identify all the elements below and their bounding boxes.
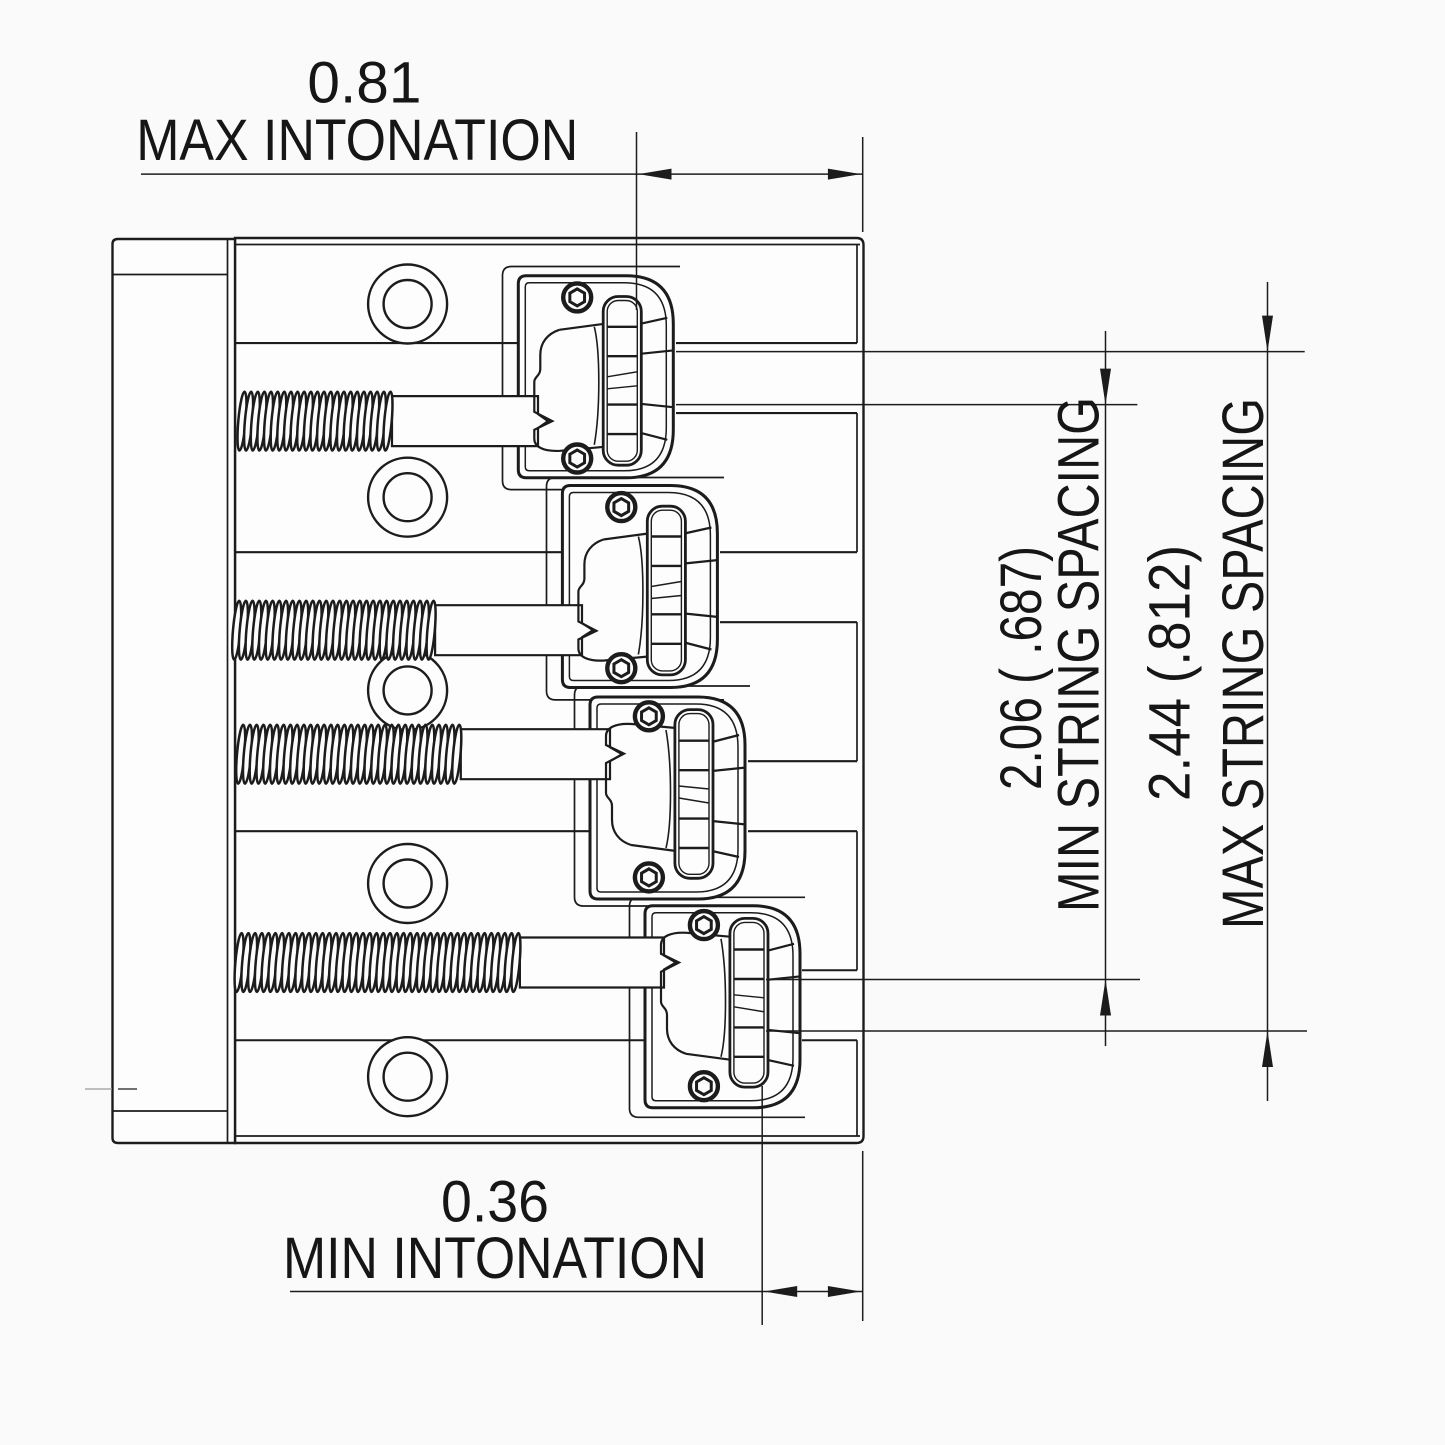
mounting hole 2 bore bbox=[384, 473, 432, 521]
arrowhead top of 2.06 dimension bbox=[1100, 369, 1111, 405]
bridge base plate outline bbox=[235, 238, 864, 1143]
saddle 4 (string 4, mirrored) body bbox=[645, 906, 801, 1108]
string 1 max-spacing line bbox=[676, 351, 1305, 353]
string 4 max-spacing line bbox=[766, 1030, 1307, 1032]
base plate inner right edge line segments bbox=[856, 245, 858, 1137]
saddle 3 (string 3, mirrored) moulding and set screws bbox=[606, 702, 676, 891]
mounting hole 5 bore bbox=[384, 1053, 432, 1101]
saddle 1 (string 1) body bbox=[518, 276, 674, 478]
arrowhead bottom of 2.06 dimension bbox=[1100, 980, 1111, 1016]
dimension line 2.06 MIN STRING SPACING bbox=[1105, 331, 1107, 1046]
svg-text:0.81: 0.81 bbox=[307, 51, 421, 116]
arrowhead right of 0.36 dimension bbox=[828, 1286, 861, 1297]
string channel edges left of saddles bbox=[235, 343, 646, 1040]
flange upper cap line bbox=[113, 274, 228, 276]
intonation screw and spring, string 3 bbox=[234, 724, 622, 783]
saddle 3 (string 3, mirrored) body bbox=[590, 697, 746, 899]
centerline tick left of flange bbox=[85, 1088, 137, 1090]
base plate inner bottom edge line bbox=[235, 1135, 860, 1137]
intonation screw and spring, string 1 bbox=[236, 391, 548, 450]
left mounting flange outline bbox=[113, 239, 236, 1143]
flange inner right edge line bbox=[227, 239, 229, 1143]
string 4 min-spacing line bbox=[766, 979, 1140, 981]
saddle 2 (string 2) moulding and set screws bbox=[578, 493, 648, 682]
extension line from saddle 1 slot bbox=[636, 132, 638, 310]
string 1 min-spacing line bbox=[676, 404, 1137, 406]
svg-text:MIN STRING SPACING: MIN STRING SPACING bbox=[1046, 397, 1111, 912]
arrowhead left of 0.36 dimension bbox=[764, 1286, 797, 1297]
saddle 4 pocket outline bbox=[630, 897, 806, 1117]
svg-text:2.06 ( .687): 2.06 ( .687) bbox=[989, 546, 1054, 790]
extension line from saddle 4 slot bbox=[761, 1086, 763, 1325]
svg-text:MIN INTONATION: MIN INTONATION bbox=[283, 1226, 707, 1291]
extension line from plate right edge (top) bbox=[862, 137, 864, 232]
svg-text:MAX STRING SPACING: MAX STRING SPACING bbox=[1211, 398, 1276, 929]
mounting hole 3 bore bbox=[384, 666, 432, 714]
svg-text:2.44 (.812): 2.44 (.812) bbox=[1138, 545, 1203, 801]
mounting hole 5 counterbore bbox=[368, 1037, 447, 1116]
intonation screw and spring, string 2 bbox=[230, 600, 593, 659]
arrowhead bottom of 2.44 dimension bbox=[1262, 1031, 1273, 1067]
arrowhead right of 0.81 dimension bbox=[828, 169, 861, 180]
mounting hole 1 bore bbox=[384, 280, 432, 328]
saddle 1 pocket outline bbox=[503, 267, 681, 490]
flange lower cap line bbox=[113, 1110, 228, 1112]
svg-text:MAX INTONATION: MAX INTONATION bbox=[136, 108, 578, 173]
mounting hole 3 counterbore bbox=[368, 651, 447, 730]
arrowhead top of 2.44 dimension bbox=[1262, 316, 1273, 352]
dimension line 0.36 MIN INTONATION bbox=[290, 1291, 863, 1293]
string channel edges right of saddles bbox=[676, 343, 857, 1040]
intonation screw and spring, string 4 bbox=[233, 933, 676, 992]
svg-text:0.36: 0.36 bbox=[441, 1169, 549, 1234]
mounting hole 4 counterbore bbox=[368, 844, 447, 923]
saddle 3 pocket outline bbox=[575, 686, 751, 906]
dimension line 0.81 MAX INTONATION bbox=[141, 173, 863, 175]
saddle 2 pocket outline bbox=[547, 478, 725, 700]
saddle 1 (string 1) moulding and set screws bbox=[534, 283, 604, 472]
saddle 2 (string 2) body bbox=[562, 486, 718, 688]
saddle 4 (string 4, mirrored) moulding and set screws bbox=[661, 911, 731, 1100]
mounting hole 2 counterbore bbox=[368, 458, 447, 537]
mounting hole 1 counterbore bbox=[368, 265, 447, 344]
dimension line 2.44 MAX STRING SPACING bbox=[1267, 282, 1269, 1101]
base plate inner top edge line bbox=[235, 244, 860, 246]
arrowhead left of 0.81 dimension bbox=[639, 169, 672, 180]
extension line from plate right edge (bottom) bbox=[862, 1151, 864, 1321]
mounting hole 4 bore bbox=[384, 860, 432, 908]
